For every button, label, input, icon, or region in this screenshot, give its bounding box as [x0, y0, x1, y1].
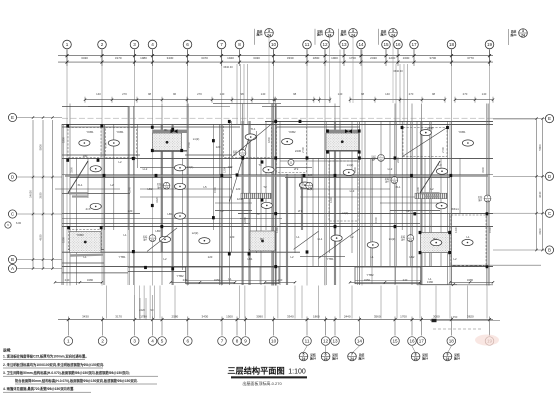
- svg-text:3480: 3480: [467, 278, 474, 282]
- svg-text:1500: 1500: [213, 187, 217, 193]
- svg-text:12: 12: [322, 42, 328, 47]
- svg-text:7: 7: [221, 339, 224, 344]
- svg-text:B2: B2: [433, 237, 437, 241]
- svg-text:3450: 3450: [364, 278, 371, 282]
- stair detail circle: [288, 159, 294, 165]
- faint pink watermark: [475, 335, 499, 346]
- svg-text:LB1: LB1: [248, 257, 253, 261]
- dark beam band: [152, 130, 187, 133]
- svg-text:1240: 1240: [237, 197, 244, 201]
- svg-text:3480: 3480: [87, 278, 94, 282]
- svg-text:施24: 施24: [453, 356, 460, 360]
- top dimension numbers: [81, 56, 474, 60]
- svg-text:施24: 施24: [309, 356, 316, 360]
- svg-text:24: 24: [446, 357, 450, 361]
- svg-text:120: 120: [230, 235, 235, 239]
- slab number ellipses: [79, 130, 474, 248]
- svg-text:120: 120: [228, 165, 233, 169]
- svg-text:YKB1: YKB1: [86, 130, 94, 134]
- svg-text:1800: 1800: [313, 56, 320, 60]
- svg-text:120: 120: [236, 187, 241, 191]
- bottom dimension lines: [54, 281, 494, 335]
- stair landing bands right: [421, 192, 440, 194]
- svg-text:1380: 1380: [427, 280, 434, 284]
- detail reference bubbles: [349, 29, 358, 38]
- svg-text:24: 24: [324, 357, 328, 361]
- svg-text:L3: L3: [438, 163, 442, 167]
- svg-text:13: 13: [341, 42, 347, 47]
- bubble connector stubs: [303, 346, 451, 353]
- svg-text:XL1: XL1: [78, 183, 83, 187]
- svg-text:12: 12: [323, 339, 329, 344]
- svg-text:24: 24: [351, 33, 355, 37]
- svg-text:1860: 1860: [313, 315, 320, 319]
- svg-text:B: B: [11, 257, 14, 262]
- svg-text:96: 96: [173, 92, 177, 96]
- svg-text:120: 120: [208, 255, 213, 259]
- svg-text:L1: L1: [228, 277, 232, 281]
- plan beam and wall horizontal lines: [55, 104, 493, 273]
- detail reference bubbles: [325, 29, 334, 38]
- bottom detail reference bubbles: [411, 352, 420, 361]
- svg-text:3: 3: [352, 29, 354, 33]
- svg-text:L2: L2: [163, 257, 167, 261]
- slab span diagonal lines: [147, 122, 447, 259]
- svg-text:TL1: TL1: [251, 127, 256, 131]
- svg-text:140: 140: [261, 92, 266, 96]
- svg-text:1500: 1500: [374, 217, 378, 223]
- stair flight center-left: [241, 193, 271, 198]
- upper sub dimension numbers: [96, 92, 487, 96]
- svg-text:L2: L2: [110, 183, 114, 187]
- svg-text:2: 2: [101, 42, 104, 47]
- svg-text:YKB2: YKB2: [288, 130, 296, 134]
- svg-text:17: 17: [419, 339, 425, 344]
- svg-text:98: 98: [293, 92, 297, 96]
- in-plan detail bubbles: [143, 149, 491, 242]
- svg-text:1500: 1500: [62, 237, 66, 243]
- svg-text:E: E: [11, 115, 14, 120]
- svg-text:E: E: [548, 116, 551, 121]
- svg-text:1700: 1700: [400, 315, 407, 319]
- svg-text:3300: 3300: [353, 167, 357, 173]
- svg-text:14: 14: [357, 339, 363, 344]
- svg-text:10: 10: [271, 42, 277, 47]
- svg-text:施24: 施24: [358, 356, 365, 360]
- right lower dashed beam: [453, 265, 484, 267]
- svg-text:240: 240: [403, 278, 408, 282]
- svg-text:1240: 1240: [329, 197, 333, 203]
- svg-text:3770: 3770: [467, 56, 474, 60]
- svg-text:140: 140: [385, 92, 390, 96]
- svg-text:24: 24: [267, 33, 271, 37]
- svg-text:3430: 3430: [81, 56, 88, 60]
- svg-text:270: 270: [197, 92, 202, 96]
- svg-text:270: 270: [409, 92, 414, 96]
- svg-text:LB2: LB2: [148, 187, 153, 191]
- svg-text:4630: 4630: [39, 234, 43, 241]
- right axis letter bubbles: [493, 115, 554, 255]
- svg-text:LB3: LB3: [156, 229, 161, 233]
- svg-text:T1: T1: [258, 163, 262, 167]
- svg-text:L4(2): L4(2): [342, 211, 349, 215]
- column marks: [66, 120, 488, 271]
- svg-text:240: 240: [65, 278, 70, 282]
- svg-text:1980: 1980: [140, 56, 147, 60]
- svg-text:施24: 施24: [340, 33, 347, 37]
- beam and slab text labels: [76, 126, 470, 281]
- svg-text:LT1: LT1: [298, 209, 303, 213]
- wall double lines: [62, 104, 488, 286]
- svg-text:2430: 2430: [370, 56, 377, 60]
- svg-text:1600: 1600: [403, 56, 410, 60]
- svg-text:3630: 3630: [39, 192, 43, 199]
- svg-text:YKB3: YKB3: [76, 233, 84, 237]
- svg-text:3470: 3470: [201, 56, 208, 60]
- svg-text:LL2: LL2: [388, 167, 393, 171]
- svg-text:6.00: 6.00: [16, 221, 22, 225]
- svg-text:见结: 见结: [143, 235, 148, 239]
- vertical dimension texts: [62, 137, 493, 243]
- svg-text:L2: L2: [430, 187, 434, 191]
- svg-text:L1: L1: [123, 233, 127, 237]
- svg-text:1940: 1940: [227, 56, 234, 60]
- svg-text:3340: 3340: [287, 315, 294, 319]
- left axis letter bubbles: [8, 113, 62, 272]
- svg-text:120: 120: [216, 145, 221, 149]
- left dimension strip: [29, 116, 54, 269]
- svg-text:三层结构平面图: 三层结构平面图: [227, 366, 284, 376]
- svg-text:3700: 3700: [429, 56, 436, 60]
- right lower leader lines: [430, 320, 500, 322]
- svg-text:2430: 2430: [295, 149, 302, 153]
- svg-text:3450: 3450: [214, 278, 221, 282]
- svg-text:11: 11: [305, 42, 310, 47]
- svg-text:5: 5: [303, 353, 305, 357]
- svg-text:24: 24: [391, 33, 395, 37]
- svg-text:B: B: [548, 248, 551, 253]
- svg-text:LL3: LL3: [350, 189, 355, 193]
- svg-text:10: 10: [271, 339, 277, 344]
- svg-text:140: 140: [220, 92, 225, 96]
- slab edge dashed outlines: [68, 125, 486, 267]
- svg-text:3: 3: [329, 29, 331, 33]
- svg-text:3630: 3630: [538, 191, 542, 198]
- svg-text:2: 2: [101, 339, 104, 344]
- svg-text:18: 18: [449, 42, 455, 47]
- svg-text:240: 240: [183, 278, 188, 282]
- svg-text:3430: 3430: [253, 56, 260, 60]
- svg-text:TZ: TZ: [263, 185, 267, 189]
- svg-text:L2(2): L2(2): [192, 231, 199, 235]
- svg-text:YKB1: YKB1: [116, 130, 124, 134]
- center stacked dims: [135, 295, 154, 320]
- svg-text:A: A: [11, 266, 14, 271]
- svg-text:L2: L2: [406, 209, 410, 213]
- svg-text:L2: L2: [118, 160, 122, 164]
- svg-text:6: 6: [186, 42, 189, 47]
- svg-text:24: 24: [302, 357, 306, 361]
- svg-text:7: 7: [351, 353, 353, 357]
- svg-text:24: 24: [414, 357, 418, 361]
- svg-text:L2: L2: [290, 255, 294, 259]
- svg-text:420: 420: [308, 173, 313, 177]
- svg-text:24: 24: [328, 33, 332, 37]
- svg-text:1430: 1430: [275, 227, 279, 233]
- svg-text:3640 40: 3640 40: [393, 69, 403, 73]
- svg-text:3: 3: [133, 42, 136, 47]
- svg-text:施24: 施24: [256, 33, 263, 37]
- stair flight center-right: [415, 193, 447, 198]
- right lower eave line: [450, 264, 541, 266]
- svg-text:L3(1): L3(1): [187, 165, 194, 169]
- svg-text:14: 14: [358, 42, 364, 47]
- bottom sub dimension numbers: [65, 278, 474, 282]
- bottom detail reference bubbles: [299, 352, 308, 361]
- svg-text:施24: 施24: [380, 33, 387, 37]
- svg-text:19: 19: [487, 42, 493, 47]
- svg-text:B3: B3: [260, 237, 264, 241]
- svg-text:见结: 见结: [385, 177, 390, 181]
- svg-text:8: 8: [238, 42, 241, 47]
- svg-text:13: 13: [332, 339, 338, 344]
- svg-text:YKB1: YKB1: [458, 130, 466, 134]
- svg-text:17: 17: [411, 42, 417, 47]
- left small detail bubble: [5, 222, 11, 228]
- svg-text:6: 6: [187, 339, 190, 344]
- svg-text:YTB1: YTB1: [327, 257, 334, 261]
- svg-text:240: 240: [278, 278, 283, 282]
- svg-text:140: 140: [96, 92, 101, 96]
- svg-text:1. 现浇板砼强度等级C25,板厚均为100mm,双向拉通布: 1. 现浇板砼强度等级C25,板厚均为100mm,双向拉通布置。: [3, 354, 89, 359]
- svg-text:1900: 1900: [331, 56, 338, 60]
- svg-text:9: 9: [244, 339, 247, 344]
- svg-text:1240: 1240: [128, 187, 132, 193]
- svg-text:11: 11: [305, 339, 310, 344]
- svg-text:2440: 2440: [344, 315, 351, 319]
- detail reference bubbles: [265, 29, 274, 38]
- svg-text:3330: 3330: [287, 56, 294, 60]
- svg-text:3300: 3300: [70, 167, 74, 173]
- svg-text:1500: 1500: [488, 227, 492, 233]
- svg-text:1800: 1800: [62, 137, 66, 143]
- bottom dimension numbers: [82, 315, 474, 319]
- svg-text:3170: 3170: [115, 315, 122, 319]
- svg-text:L2(3): L2(3): [427, 126, 434, 130]
- notes list: [3, 348, 158, 393]
- detail reference bubbles: [519, 29, 528, 38]
- balcony box left: [186, 267, 279, 284]
- svg-text:L1: L1: [466, 235, 470, 239]
- svg-text:3: 3: [268, 29, 270, 33]
- svg-text:24: 24: [350, 357, 354, 361]
- hatched slab areas: [70, 133, 450, 253]
- svg-text:3820: 3820: [467, 315, 474, 319]
- svg-text:1200: 1200: [416, 187, 420, 193]
- svg-text:出屋面板顶标高-0.270: 出屋面板顶标高-0.270: [242, 380, 282, 386]
- svg-text:270: 270: [122, 92, 127, 96]
- svg-text:L1(2): L1(2): [389, 237, 396, 241]
- svg-text:见结: 见结: [371, 154, 376, 158]
- grid axis vertical lines: [67, 50, 490, 319]
- svg-text:L1: L1: [83, 255, 87, 259]
- dark beam band: [326, 130, 359, 133]
- svg-text:4×X: 4×X: [85, 207, 90, 211]
- svg-text:1:100: 1:100: [288, 369, 306, 376]
- svg-text:说明:: 说明:: [3, 348, 11, 353]
- svg-text:1500: 1500: [226, 315, 233, 319]
- svg-text:4: 4: [151, 42, 154, 47]
- svg-text:15: 15: [383, 42, 389, 47]
- svg-text:9: 9: [447, 353, 449, 357]
- svg-text:98: 98: [240, 92, 244, 96]
- svg-text:3300: 3300: [481, 167, 485, 173]
- svg-text:4: 4: [151, 339, 154, 344]
- svg-text:L1(2): L1(2): [193, 137, 200, 141]
- svg-text:YTB1: YTB1: [119, 255, 126, 259]
- svg-text:450: 450: [453, 315, 458, 319]
- right low edge line: [417, 284, 493, 286]
- svg-text:LB2: LB2: [410, 255, 415, 259]
- svg-text:L1: L1: [370, 255, 374, 259]
- svg-text:98: 98: [432, 92, 436, 96]
- svg-text:3170: 3170: [115, 56, 122, 60]
- svg-text:L5: L5: [203, 185, 207, 189]
- svg-text:2580: 2580: [172, 315, 179, 319]
- svg-text:1200: 1200: [223, 167, 227, 173]
- svg-text:3090: 3090: [256, 315, 263, 319]
- svg-text:施24: 施24: [421, 356, 428, 360]
- svg-text:施24: 施24: [316, 33, 323, 37]
- svg-text:3430: 3430: [202, 315, 209, 319]
- svg-text:2280: 2280: [396, 157, 400, 163]
- svg-text:14630: 14630: [29, 190, 33, 198]
- svg-text:2700: 2700: [104, 142, 108, 148]
- svg-text:见结: 见结: [401, 235, 406, 239]
- svg-text:L1: L1: [296, 235, 300, 239]
- svg-text:见结: 见结: [233, 150, 238, 154]
- svg-text:8: 8: [236, 339, 239, 344]
- svg-text:2. 未注明板顶标高均为100X100双向,未注明板底钢筋为: 2. 未注明板顶标高均为100X100双向,未注明板底钢筋为Φ8@150双向.: [3, 362, 104, 367]
- stair landing bands left: [69, 192, 88, 194]
- svg-text:5800: 5800: [39, 144, 43, 151]
- svg-text:LL2: LL2: [143, 167, 148, 171]
- svg-text:3420: 3420: [155, 197, 159, 203]
- svg-text:LB1: LB1: [168, 212, 173, 216]
- stair diagonal right end: [420, 161, 440, 193]
- svg-text:1700: 1700: [349, 56, 356, 60]
- svg-text:施24: 施24: [510, 33, 517, 37]
- svg-text:XL1: XL1: [396, 185, 401, 189]
- svg-text:L2: L2: [350, 235, 354, 239]
- svg-text:16: 16: [395, 42, 401, 47]
- svg-text:5800: 5800: [538, 144, 542, 151]
- svg-text:2700: 2700: [187, 142, 191, 148]
- svg-text:5: 5: [161, 339, 164, 344]
- svg-text:4. 雨篷详见建施,悬挑720,配筋Φ8@150双向布置.: 4. 雨篷详见建施,悬挑720,配筋Φ8@150双向布置.: [3, 386, 74, 391]
- svg-text:1200: 1200: [389, 56, 396, 60]
- svg-text:3430: 3430: [167, 56, 174, 60]
- svg-text:T2: T2: [256, 212, 260, 216]
- svg-text:2280: 2280: [243, 217, 247, 223]
- svg-text:180: 180: [83, 154, 88, 158]
- svg-text:LL1: LL1: [318, 237, 323, 241]
- svg-text:7: 7: [220, 42, 223, 47]
- svg-text:1: 1: [67, 339, 70, 344]
- svg-text:施24: 施24: [331, 356, 338, 360]
- svg-text:120: 120: [128, 209, 133, 213]
- svg-text:1800: 1800: [267, 137, 271, 143]
- svg-text:3: 3: [392, 29, 394, 33]
- svg-text:3000: 3000: [433, 315, 440, 319]
- axis line E: [62, 117, 493, 119]
- svg-text:3: 3: [522, 29, 524, 33]
- detail reference bubbles: [389, 29, 398, 38]
- top grid bubbles: [63, 40, 494, 49]
- svg-text:140: 140: [338, 92, 343, 96]
- svg-text:1430: 1430: [454, 227, 458, 233]
- svg-text:L2: L2: [220, 209, 224, 213]
- svg-text:98: 98: [361, 92, 365, 96]
- svg-text:140: 140: [482, 92, 487, 96]
- wall construction vertical lines: [62, 104, 487, 286]
- stair diagonal left end: [68, 161, 88, 193]
- svg-text:3560: 3560: [374, 315, 381, 319]
- svg-text:YTB2: YTB2: [367, 273, 374, 277]
- upper sub dimension line: [84, 97, 494, 103]
- svg-text:18: 18: [449, 339, 455, 344]
- svg-text:6: 6: [325, 353, 327, 357]
- svg-text:3430: 3430: [82, 315, 89, 319]
- svg-text:见结: 见结: [478, 195, 483, 199]
- svg-text:3600: 3600: [538, 228, 542, 235]
- svg-text:2700: 2700: [441, 147, 445, 153]
- svg-text:2700: 2700: [301, 147, 305, 153]
- bottom grid bubbles: [64, 337, 494, 346]
- balcony edge band: [70, 254, 103, 257]
- svg-text:WKL1: WKL1: [451, 207, 459, 211]
- top dimension lines: [58, 50, 493, 67]
- svg-text:16: 16: [409, 339, 415, 344]
- svg-text:98: 98: [148, 92, 152, 96]
- svg-text:3640 40: 3640 40: [223, 65, 233, 69]
- svg-text:1: 1: [66, 42, 69, 47]
- balcony box right: [355, 267, 421, 284]
- D axis wall band: [65, 175, 232, 177]
- svg-text:15: 15: [392, 339, 398, 344]
- svg-text:3: 3: [133, 339, 136, 344]
- svg-text:270: 270: [463, 92, 468, 96]
- svg-text:L2: L2: [453, 257, 457, 261]
- svg-text:3. 卫生间降板50mm,结构标高(H-0.070),板面钢: 3. 卫生间降板50mm,结构标高(H-0.070),板面钢筋Φ8@150双向,…: [3, 370, 130, 375]
- svg-text:阳台板面降50mm,结构标高(H-0.070),板面钢筋Φ8: 阳台板面降50mm,结构标高(H-0.070),板面钢筋Φ8@150双向,板底钢…: [15, 378, 138, 383]
- svg-text:LT2: LT2: [294, 167, 299, 171]
- bottom detail reference bubbles: [321, 352, 330, 361]
- svg-text:B1: B1: [164, 128, 168, 132]
- svg-text:24: 24: [521, 34, 525, 38]
- svg-text:8: 8: [415, 353, 417, 357]
- bottom detail reference bubbles: [443, 352, 452, 361]
- bottom detail reference bubbles: [348, 352, 357, 361]
- right lower sub dim: [420, 284, 457, 286]
- right dimension strip: [493, 117, 544, 251]
- svg-text:L1(2): L1(2): [347, 163, 354, 167]
